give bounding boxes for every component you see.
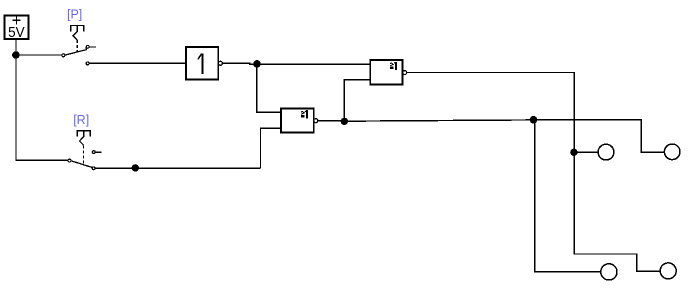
svg-text:[R]: [R] <box>73 113 89 127</box>
probe A circle <box>598 144 614 160</box>
NOR gate U2 output bubble <box>314 119 318 123</box>
probe D circle <box>660 263 676 279</box>
wire left rail down <box>16 55 68 160</box>
node junction dot at V1 <box>12 51 20 59</box>
wire node to NOR1 input A <box>257 63 370 65</box>
NOR gate U3 output bubble <box>403 71 407 75</box>
switch P pole contact <box>62 54 65 57</box>
NOT gate U1 box <box>186 47 218 80</box>
wire feedback node up to NOR1 input B <box>344 80 370 122</box>
wire NOT output to node <box>222 62 257 65</box>
svg-text:[P]: [P] <box>67 8 82 22</box>
NOR gate U3 label <box>390 62 397 70</box>
switch P linkage dashed <box>76 40 78 52</box>
wire Q branch down to probe D <box>574 152 660 271</box>
wire Qbar branch down to probe C <box>535 120 601 272</box>
NOT gate U1 label 1 <box>198 53 203 74</box>
switch P upper throw contact <box>86 45 89 48</box>
wire from V1 bottom to node <box>15 40 17 56</box>
switch R upper throw stub <box>95 151 102 153</box>
node junction dot on R wire <box>132 164 139 171</box>
probe C circle <box>601 264 617 280</box>
node junction dot after NOT <box>253 60 261 68</box>
switch P lower throw contact <box>86 62 89 65</box>
switch P button cap <box>71 25 84 31</box>
switch R button cap <box>77 131 90 137</box>
wire NOR2 input B from R net <box>261 128 282 168</box>
NOR gate U2 (lower) box <box>281 109 314 133</box>
wire NOR2 output to node <box>318 120 345 122</box>
switch R pole contact <box>68 159 71 162</box>
NOR gate U2 label <box>301 110 308 118</box>
power source plus sign <box>12 16 20 24</box>
wire node to P pole <box>16 54 62 56</box>
switch P lever <box>65 47 86 55</box>
wire Qbar net right <box>344 120 664 152</box>
node junction dot after NOR2 <box>341 118 348 125</box>
node junction dot on Q net <box>570 149 577 156</box>
wire R throw to node <box>95 167 261 169</box>
probe B circle <box>664 144 680 160</box>
NOR gate U3 (upper) box <box>370 60 402 85</box>
switch R lower throw contact <box>92 167 95 170</box>
node junction dot on Qbar net <box>530 116 538 124</box>
wire P throw to NOT input <box>89 62 186 64</box>
wire node to probe A <box>574 151 598 153</box>
wire node down to NOR2 input A <box>257 64 281 112</box>
switch R linkage dashed <box>83 145 85 165</box>
NOT gate U1 output bubble <box>218 61 222 65</box>
switch P upper throw stub <box>89 46 96 48</box>
switch P actuator zigzag <box>73 25 77 40</box>
switch R lever <box>71 161 92 168</box>
switch R actuator zigzag <box>80 131 84 146</box>
wire NOR3 output right <box>407 73 574 153</box>
svg-text:5V: 5V <box>8 24 25 41</box>
power source V1 box <box>5 16 29 40</box>
switch R upper throw contact <box>92 151 95 154</box>
